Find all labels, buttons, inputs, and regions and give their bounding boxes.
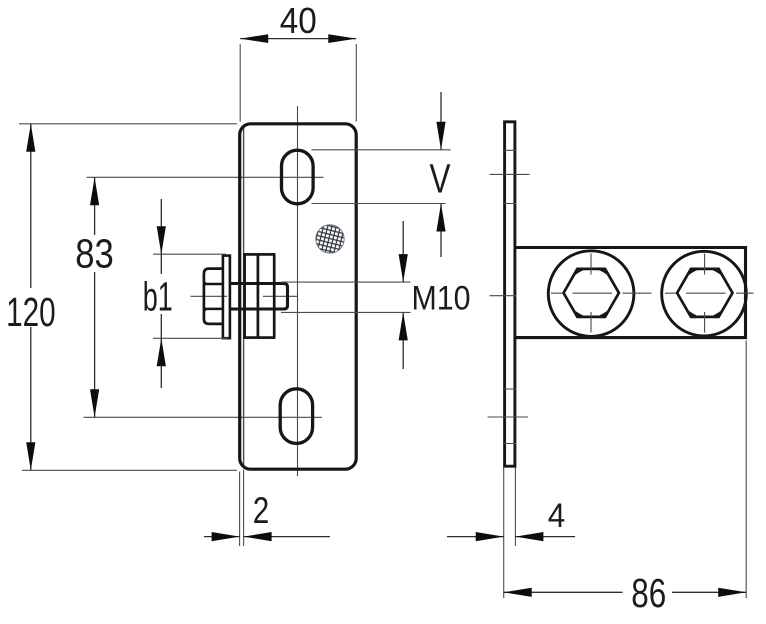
dimension 40 arrows xyxy=(240,34,356,43)
dimension 2 ext lines xyxy=(240,470,244,547)
side plate xyxy=(505,122,515,466)
dimension M10 ext lines xyxy=(281,282,411,312)
hex head facet arcs xyxy=(204,278,207,316)
side bolt axis tick xyxy=(490,295,517,297)
dimension 83 arrows xyxy=(90,177,99,417)
hex head facet lines xyxy=(204,284,223,309)
bolt B2 chamfer arcs xyxy=(688,269,722,317)
centerline bolt axis xyxy=(191,295,298,297)
washer xyxy=(223,256,230,339)
dimension 4 line xyxy=(447,536,575,538)
dimension 86 line xyxy=(504,591,747,593)
svg-text:83: 83 xyxy=(75,231,114,277)
nut xyxy=(245,254,275,337)
svg-text:4: 4 xyxy=(548,497,566,535)
side plate slot tick lines xyxy=(503,150,517,443)
dimension 83 line xyxy=(94,177,96,417)
dimension 86 ext line right xyxy=(745,341,747,599)
svg-text:86: 86 xyxy=(631,570,666,616)
dimension M10 stems xyxy=(402,221,404,369)
dimension b1 line and stems xyxy=(160,199,162,388)
dimension 40 ext lines xyxy=(240,44,356,122)
svg-text:M10: M10 xyxy=(412,279,471,317)
svg-text:b1: b1 xyxy=(143,273,173,319)
dimension V stems xyxy=(440,92,442,257)
bottom slot xyxy=(280,389,312,444)
top slot xyxy=(282,150,314,204)
svg-text:40: 40 xyxy=(280,0,317,41)
centerline top slot horizontal xyxy=(87,176,324,178)
dimension 2 arrows xyxy=(212,532,272,541)
dimension 2 line xyxy=(204,536,330,538)
dimension V ext lines xyxy=(312,150,451,204)
knurled weld mark xyxy=(316,225,344,253)
hex head xyxy=(204,269,223,324)
bolt B2 circle xyxy=(662,251,747,336)
arm outline xyxy=(515,248,746,338)
centerline bottom slot horizontal xyxy=(84,416,323,418)
bolt B1 hexagon xyxy=(564,269,619,317)
bolt B2 centerlines xyxy=(665,254,754,333)
dimension V arrows xyxy=(436,122,445,232)
bolt B1 chamfer arcs xyxy=(574,269,608,317)
side plate slot centerline ticks xyxy=(488,174,530,417)
dimension M10 arrows xyxy=(399,254,408,340)
bolt B1 centerlines xyxy=(551,254,652,333)
dimension 120 arrows xyxy=(26,124,35,471)
bolt B2 hexagon xyxy=(677,269,732,317)
dimension 120 line xyxy=(30,124,32,471)
svg-text:2: 2 xyxy=(253,490,270,531)
dimension 40 line xyxy=(240,38,356,40)
centerline vertical of front plate xyxy=(297,106,299,476)
dimension 4 arrows xyxy=(476,532,544,541)
bolt B1 circle xyxy=(548,251,634,337)
nut facet line xyxy=(257,254,260,337)
dimension 4 ext lines xyxy=(504,468,516,599)
dimension b1 arrows xyxy=(157,226,166,366)
dimension 86 arrows xyxy=(504,588,747,597)
svg-text:V: V xyxy=(430,155,451,201)
front plate outline xyxy=(240,124,357,469)
dimension b1 ext lines xyxy=(153,254,228,338)
bolt shank xyxy=(230,284,288,310)
dimension 120 ext lines xyxy=(19,124,237,471)
svg-text:120: 120 xyxy=(6,289,56,335)
plate edge thickness line (2mm edge) xyxy=(243,126,245,468)
